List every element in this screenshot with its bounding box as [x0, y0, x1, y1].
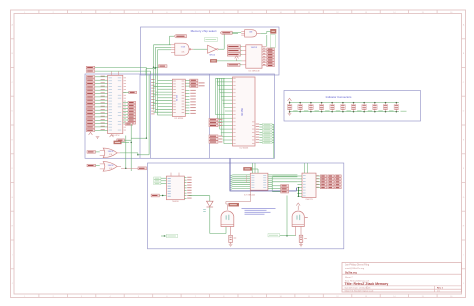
svg-text:62 256: 62 256 [241, 108, 244, 116]
svg-text:email@WhlsTle.org: email@WhlsTle.org [345, 267, 365, 270]
svg-text:SuSta.org: SuSta.org [345, 271, 357, 274]
svg-text:74HC138: 74HC138 [251, 47, 258, 49]
svg-text:TItle: RetroZ Ztack Memory: TItle: RetroZ Ztack Memory [345, 282, 389, 286]
svg-text:7408: 7408 [249, 32, 253, 34]
svg-text:J: J [463, 283, 464, 285]
svg-text:74 08: 74 08 [181, 46, 185, 48]
svg-text:74HC32: 74HC32 [108, 151, 114, 153]
svg-text:74HC00: 74HC00 [172, 201, 179, 203]
svg-text:Jan-Philipp Dienst Filng: Jan-Philipp Dienst Filng [345, 264, 370, 267]
svg-text:Sheet Tile Slze A3 Original: Sheet Tile Slze A3 Original scale [345, 290, 375, 293]
svg-text:Indicator Connectors: Indicator Connectors [326, 95, 352, 99]
svg-text:74HC04: 74HC04 [209, 55, 215, 57]
svg-text:Rev 1: Rev 1 [437, 288, 444, 290]
svg-text:Memory chip select: Memory chip select [191, 29, 217, 33]
svg-text:U1B: U1B [109, 168, 112, 170]
svg-text:IC5 74HC138: IC5 74HC138 [248, 70, 259, 72]
svg-text:62 256: 62 256 [177, 94, 179, 101]
svg-text:J: J [12, 283, 13, 285]
svg-text:Sheet 7: Sheet 7 [345, 276, 353, 279]
svg-text:IC2 62256: IC2 62256 [239, 148, 248, 150]
svg-text:IC7 74HC245: IC7 74HC245 [244, 195, 255, 197]
svg-text:74HC32: 74HC32 [108, 165, 114, 167]
svg-text:IC1 62256: IC1 62256 [174, 118, 183, 120]
svg-text:74HC273: 74HC273 [305, 199, 312, 201]
